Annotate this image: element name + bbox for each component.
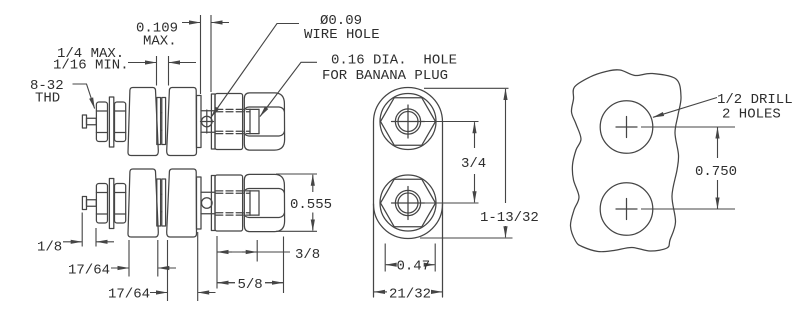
- insulator disc 1: [128, 169, 158, 237]
- hidden hole lower dashes: [216, 212, 250, 214]
- dim 1/4-1/16 extension line left: [156, 56, 158, 86]
- cap facet line upper: [244, 189, 284, 194]
- banana hole right edge: [258, 109, 260, 133]
- right view center ext top: [641, 126, 735, 128]
- hole cross top h: [616, 126, 637, 128]
- svg-text:0.555: 0.555: [290, 197, 332, 213]
- bushing washer right: [162, 179, 166, 226]
- dim 17/64 second extension line left: [167, 240, 169, 301]
- post assembly side view (bottom, cy=203): [82, 169, 284, 237]
- panel section view (right): [570, 70, 681, 252]
- svg-text:21/32: 21/32: [389, 287, 431, 303]
- cap cylinder: [215, 175, 243, 231]
- center cross bottom v: [407, 187, 409, 220]
- bushing washer left: [157, 98, 161, 145]
- wire hole cross vertical: [206, 110, 208, 133]
- dim 21/32 arrow right: [434, 291, 442, 293]
- dim 0.109 extension line right: [210, 15, 212, 92]
- stud circle inner top: [398, 112, 418, 132]
- hidden hole upper dashes: [216, 190, 250, 192]
- dim 1/8 extension line left: [81, 213, 83, 247]
- stud circle inner bottom: [398, 193, 418, 213]
- front view side extension right: [442, 204, 444, 297]
- stud circle outer bottom: [395, 190, 420, 215]
- dim 0.555 arrow down: [312, 213, 314, 231]
- dim 3/4 line upper: [474, 122, 476, 148]
- knurled cap nut: [244, 93, 284, 150]
- leader banana hole: [260, 62, 317, 116]
- dim 0.47 extension line right: [434, 244, 436, 272]
- dim 1-13/32 line lower: [505, 226, 507, 237]
- dim 1/8 arrow left: [63, 241, 82, 243]
- drill hole top: [600, 101, 653, 154]
- washer front: [197, 177, 202, 229]
- drill hole bottom: [600, 183, 653, 236]
- dim 1-13/32 line upper: [505, 89, 507, 203]
- bushing sleeve: [161, 193, 162, 195]
- dim 3/8 arrow right: [242, 251, 257, 253]
- front view side extension left: [373, 204, 375, 297]
- svg-text:WIRE HOLE: WIRE HOLE: [304, 27, 380, 43]
- hex nut rear: [96, 102, 107, 142]
- cap cylinder: [215, 94, 243, 150]
- shank lines: [201, 110, 215, 112]
- dim 0.109 extension line left: [200, 15, 202, 94]
- dim 1/4-1/16 arrow right: [169, 62, 196, 64]
- dim 0.555 extension line bottom: [276, 230, 317, 232]
- cap facet line lower: [244, 132, 284, 137]
- svg-text:0.16 DIA. HOLE: 0.16 DIA. HOLE: [331, 53, 457, 69]
- insulator disc 1: [128, 88, 158, 156]
- svg-text:1/8: 1/8: [37, 240, 62, 256]
- dim 3/8 extension line left: [216, 236, 218, 289]
- svg-text:3/8: 3/8: [295, 247, 320, 263]
- dim 0.750 line upper: [717, 128, 719, 159]
- leader 8-32 THD: [73, 84, 95, 109]
- banana hole top edge: [250, 108, 259, 110]
- banana hole bottom edge: [250, 133, 259, 135]
- hole cross top v: [626, 117, 628, 138]
- front view center line ext bottom: [425, 202, 479, 204]
- svg-text:THD: THD: [35, 91, 60, 107]
- cap flange plate: [211, 94, 215, 149]
- dim 17/64 second arrow left: [150, 292, 167, 294]
- dim 17/64 second arrow right: [198, 292, 215, 294]
- insulator disc 2: [167, 169, 197, 237]
- wire hole circle: [202, 198, 213, 209]
- svg-text:17/64: 17/64: [108, 287, 150, 303]
- stud shaft: [87, 118, 97, 124]
- dim 5/8 arrow left: [218, 282, 236, 284]
- hidden hole upper dashes: [216, 108, 250, 110]
- svg-text:1/16 MIN.: 1/16 MIN.: [53, 58, 129, 74]
- bushing washer left: [157, 179, 161, 226]
- hex nut front: [115, 102, 126, 142]
- leader 1/2 drill: [653, 98, 717, 118]
- hidden hole lower dashes: [216, 130, 250, 132]
- dim 0.109 arrow left: [182, 22, 200, 24]
- dim 0.555 arrow up: [312, 175, 314, 192]
- dim 3/8 extension line middle: [256, 240, 258, 262]
- hex nut bottom: [381, 179, 436, 227]
- dim 5/8 extension line right: [283, 237, 285, 294]
- wire hole cross horizontal: [201, 121, 214, 123]
- cap facet line lower: [244, 213, 284, 218]
- center cross bottom h: [392, 202, 425, 204]
- shank lines: [201, 191, 215, 193]
- wire hole circle: [202, 116, 213, 127]
- dim 0.555 extension line top: [276, 173, 317, 175]
- svg-text:5/8: 5/8: [238, 277, 263, 293]
- cap facet line upper: [244, 107, 284, 112]
- banana hole left edge: [249, 109, 251, 133]
- bushing washer right: [162, 98, 166, 145]
- dim 1/8 arrow right: [97, 241, 115, 243]
- banana hole right edge: [258, 191, 260, 215]
- dim 1/4-1/16 arrow left: [128, 62, 156, 64]
- hex nut front: [115, 184, 126, 224]
- hex nut rear: [96, 184, 107, 224]
- hex nut top: [381, 98, 436, 146]
- svg-text:MAX.: MAX.: [143, 34, 177, 50]
- front view center line ext top: [425, 121, 479, 123]
- banana hole bottom edge: [250, 214, 259, 216]
- dim 0.47 arrow right: [428, 264, 435, 266]
- stud head: [82, 197, 86, 210]
- washer rear: [109, 179, 113, 229]
- hex nut top circumcircle: [380, 94, 436, 150]
- dim 17/64 first extension line right: [157, 240, 159, 277]
- svg-text:0.47: 0.47: [397, 259, 431, 275]
- dim 3/8 line: [217, 251, 290, 253]
- dim 1/8 extension line right: [95, 228, 97, 247]
- hex nut bottom circumcircle: [380, 175, 436, 231]
- dim 3/8 arrow left: [218, 251, 233, 253]
- stud circle outer top: [395, 109, 420, 134]
- dim 17/64 second extension line right: [197, 232, 199, 301]
- svg-text:FOR BANANA PLUG: FOR BANANA PLUG: [322, 68, 448, 84]
- right view center ext bottom: [641, 208, 735, 210]
- svg-text:3/4: 3/4: [461, 156, 486, 172]
- washer rear: [109, 97, 113, 147]
- banana hole left edge: [249, 191, 251, 215]
- center cross top v: [407, 105, 409, 138]
- front view top ext line: [424, 87, 509, 89]
- svg-text:2 HOLES: 2 HOLES: [722, 107, 781, 123]
- svg-text:17/64: 17/64: [68, 263, 110, 279]
- dim 5/8 line left: [217, 282, 235, 284]
- dim 17/64 first extension line left: [128, 240, 130, 277]
- dim 17/64 first arrow right: [158, 267, 176, 269]
- bushing sleeve: [161, 112, 162, 114]
- dim 3/4 line lower: [474, 174, 476, 202]
- leader wire hole: [211, 24, 299, 118]
- post assembly side view (top, cy=121.5): [82, 88, 284, 156]
- dim 5/8 line right: [265, 282, 284, 284]
- hole cross bottom v: [626, 199, 628, 220]
- dim 17/64 first arrow left: [111, 267, 129, 269]
- dim 0.47 extension line left: [384, 244, 386, 272]
- front view bottom ext line: [420, 237, 513, 239]
- center cross top h: [392, 121, 425, 123]
- hole cross bottom h: [616, 208, 637, 210]
- knurled cap nut: [244, 174, 284, 231]
- svg-text:0.750: 0.750: [695, 164, 737, 180]
- stud head: [82, 115, 86, 128]
- stud shaft: [87, 200, 97, 206]
- dim 21/32 arrow left: [374, 291, 387, 293]
- dim 0.750 line lower: [717, 180, 719, 209]
- dim 0.47 arrow left: [386, 264, 396, 266]
- front view body (stadium outline): [374, 88, 443, 298]
- svg-text:1-13/32: 1-13/32: [480, 210, 539, 226]
- cap flange plate: [211, 176, 215, 231]
- panel wavy outline: [570, 70, 681, 252]
- washer front: [197, 96, 202, 148]
- banana hole top edge: [250, 190, 259, 192]
- insulator disc 2: [167, 88, 197, 156]
- dim 1/4-1/16 extension line right: [168, 56, 170, 86]
- dim 0.109 arrow right: [212, 22, 230, 24]
- dim 5/8 arrow right: [265, 282, 283, 284]
